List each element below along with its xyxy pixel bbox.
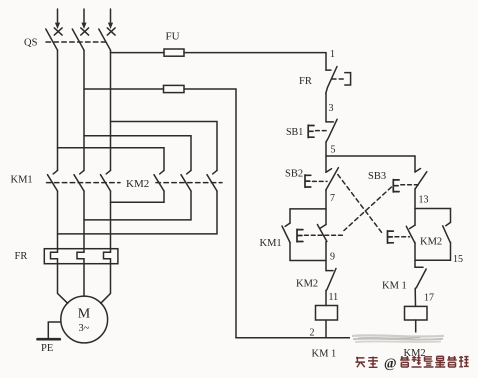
wire FR to motor phase1 xyxy=(58,264,68,304)
contactor KM1 main pole 2 xyxy=(74,170,84,191)
wire phase L3 vertical QS to KM1 xyxy=(110,50,112,170)
wire coil KM2 to bottom line xyxy=(415,320,417,338)
start button SB2 blade xyxy=(326,168,339,191)
FR contact actuator dashes xyxy=(332,78,344,80)
KM2 aux loop wires (right) xyxy=(415,209,451,223)
SB3 NC interlock contact blade (left branch) xyxy=(317,225,327,242)
wire KM2 pole1 output crossover to L3 xyxy=(111,191,165,202)
wire rail SB1 to node5 xyxy=(325,142,327,172)
wire rail FR to SB1 xyxy=(325,93,327,122)
KM1 aux loop lower wire xyxy=(290,243,326,261)
svg-text:1: 1 xyxy=(330,49,335,60)
fuse FU2 wire left xyxy=(84,88,164,90)
wire rail mid contact to node9 xyxy=(325,242,327,271)
contact-point x mark pole1 xyxy=(54,28,62,35)
contactor KM2 main pole 2 xyxy=(181,170,191,191)
fuse FU1 body xyxy=(164,49,184,56)
svg-text:FR: FR xyxy=(299,76,312,87)
KM2 aux loop lower wire xyxy=(415,242,451,260)
wire KM2 feeder from L1 xyxy=(58,148,165,171)
dashed mechanical X link SB2 to right NC xyxy=(338,175,382,233)
coil KM2 xyxy=(405,306,428,320)
disconnect switch QS pole 3 blade xyxy=(99,29,111,50)
watermark text 头条@管道质量管理 xyxy=(355,356,468,371)
svg-text:KM1: KM1 xyxy=(11,175,33,186)
svg-text:3~: 3~ xyxy=(79,323,90,334)
svg-text:QS: QS xyxy=(24,38,38,49)
svg-text:KM2: KM2 xyxy=(296,279,318,290)
wire rail mid to node15 xyxy=(414,242,416,267)
svg-text:KM 1: KM 1 xyxy=(312,349,337,360)
FR heater element jog phase1 xyxy=(51,252,58,263)
stop button SB1 blade xyxy=(326,119,337,142)
wire L1 supply stub with arrow xyxy=(55,9,60,29)
svg-text:KM2: KM2 xyxy=(420,237,442,248)
svg-text:SB3: SB3 xyxy=(368,171,386,182)
svg-text:3: 3 xyxy=(329,103,334,114)
wire rail SB2 to mid contact xyxy=(325,190,327,224)
KM2 aux contact blade xyxy=(443,226,450,242)
wire L3 supply stub with arrow xyxy=(108,9,113,29)
disconnect switch QS pole 1 blade xyxy=(46,29,58,50)
wire coil KM1 to bottom line xyxy=(325,320,327,338)
wire control left rail top segment node1 to FR contact xyxy=(325,53,327,71)
ground bar PE xyxy=(38,338,60,341)
left mid contact actuator E symbol xyxy=(297,229,303,242)
SB3 NC interlock contact terminal tick xyxy=(321,225,327,229)
SB1 actuator E symbol xyxy=(308,125,314,138)
fuse FU2 wire to return rail xyxy=(184,88,236,90)
dashed mechanical X link SB3 to left NC xyxy=(344,187,392,231)
SB2 NC interlock contact blade (right branch) xyxy=(406,226,414,242)
FR NC contact terminal bar xyxy=(326,69,331,71)
svg-text:FR: FR xyxy=(15,251,28,262)
wire PE earth connection xyxy=(48,322,61,339)
KM1 NC interlock blade xyxy=(415,269,426,289)
svg-text:KM2: KM2 xyxy=(126,178,149,190)
SB2 NC interlock contact terminal tick xyxy=(410,225,416,229)
fuse FU1 wire to control rail node 1 xyxy=(184,52,326,54)
wire FR to motor phase3 xyxy=(101,264,111,304)
svg-text:@: @ xyxy=(384,356,397,371)
contactor KM2 main pole 1 xyxy=(154,170,164,191)
svg-text:SB1: SB1 xyxy=(286,127,303,138)
svg-text:KM 1: KM 1 xyxy=(382,281,407,292)
start button SB2 terminal tick xyxy=(326,169,332,173)
FR NC contact blade xyxy=(326,67,337,94)
wire FR to motor phase2 xyxy=(83,264,85,296)
svg-text:17: 17 xyxy=(424,293,434,304)
contactor KM1 main pole 3 xyxy=(101,170,111,191)
svg-text:9: 9 xyxy=(330,252,335,263)
right mid contact actuator E symbol xyxy=(388,231,394,244)
wire node5 branch to right xyxy=(326,155,415,157)
wire phase L2 vertical QS to KM1 xyxy=(83,50,85,170)
svg-text:13: 13 xyxy=(419,195,429,206)
KM1 mechanical link dashed xyxy=(47,182,121,184)
wire rail node11 to coil xyxy=(325,291,327,306)
fuse FU2 body xyxy=(164,85,185,92)
start button SB3 terminal tick xyxy=(415,169,421,173)
svg-text:7: 7 xyxy=(330,193,335,204)
wire control bottom line xyxy=(236,337,416,339)
SB3 actuator dashes xyxy=(401,184,420,186)
svg-text:M: M xyxy=(78,307,91,322)
wire L1 below KM1 to FR xyxy=(57,191,59,252)
wire L3 below KM1 to FR xyxy=(110,191,112,252)
watermark erase smear xyxy=(350,333,446,345)
KM1 aux contact blade xyxy=(282,226,290,243)
QS mechanical link dashed xyxy=(46,41,108,43)
KM2 mechanical link dashed xyxy=(156,182,222,184)
contact-point x mark pole3 xyxy=(107,28,115,35)
wire rail SB3 to mid contact xyxy=(414,189,416,225)
svg-text:PE: PE xyxy=(41,343,53,354)
thermal relay FR heater box xyxy=(44,249,118,264)
svg-text:5: 5 xyxy=(331,145,336,156)
start button SB3 blade xyxy=(415,172,427,189)
fuse FU1 wire left xyxy=(111,52,165,54)
coil KM1 xyxy=(316,306,338,321)
KM1 aux loop wires (left) xyxy=(290,209,326,223)
wire L2 supply stub with arrow xyxy=(81,9,86,29)
KM2 aux contact terminal tick xyxy=(446,222,451,225)
KM1 NC interlock terminal bar xyxy=(415,266,423,268)
KM2 NC interlock terminal bar xyxy=(326,270,333,272)
right mid actuator dashes xyxy=(395,236,410,238)
KM1 aux contact terminal tick xyxy=(285,223,290,226)
wire KM2 pole3 output crossover to L1 xyxy=(58,191,218,234)
left mid actuator dashes to X xyxy=(305,234,344,236)
SB3 actuator E symbol xyxy=(393,180,399,193)
contactor KM2 main pole 3 xyxy=(207,170,217,191)
svg-text:2: 2 xyxy=(310,328,315,339)
svg-text:11: 11 xyxy=(329,292,339,303)
motor M circle xyxy=(61,296,108,343)
FR thermal element symbol xyxy=(345,73,351,85)
wire L2 below KM1 to FR xyxy=(83,191,85,252)
svg-text:KM1: KM1 xyxy=(260,238,282,249)
stop button SB1 terminal bar xyxy=(326,121,333,123)
wire KM2 feeder from L3 xyxy=(111,122,218,171)
wire rail node17 to coil xyxy=(414,289,416,307)
SB2 actuator dashes xyxy=(313,180,328,182)
wire KM2 feeder from L2 xyxy=(84,136,191,171)
SB2 actuator E symbol xyxy=(305,175,311,188)
wire phase L1 vertical QS to KM1 xyxy=(57,50,59,170)
disconnect switch QS pole 2 blade xyxy=(72,29,84,50)
svg-text:15: 15 xyxy=(453,254,463,265)
SB1 actuator dashes xyxy=(316,130,328,132)
wire KM2 pole2 output to L2 xyxy=(84,191,191,220)
contactor KM1 main pole 1 xyxy=(48,170,58,191)
svg-text:FU: FU xyxy=(166,31,180,43)
KM2 NC interlock blade xyxy=(326,269,336,291)
contact-point x mark pole2 xyxy=(81,28,89,35)
FR heater element jog phase3 xyxy=(104,252,111,263)
wire right branch top xyxy=(414,156,416,172)
svg-text:SB2: SB2 xyxy=(285,169,303,180)
FR heater element jog phase2 xyxy=(77,252,84,263)
wire control return rail xyxy=(235,89,237,338)
